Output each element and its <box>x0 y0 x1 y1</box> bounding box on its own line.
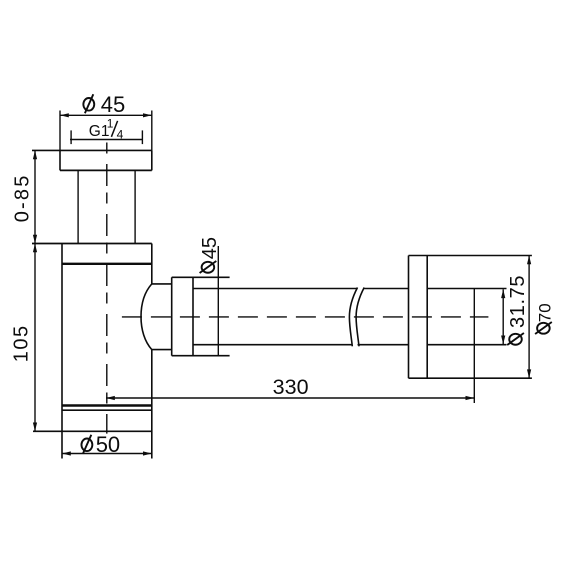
bottom cap line <box>33 430 152 432</box>
extension line Ø45 left <box>59 111 61 151</box>
compression nut <box>171 277 173 355</box>
body left side <box>61 244 63 459</box>
body bottom joint line <box>62 404 152 407</box>
thread label G1 1/4 <box>89 117 124 142</box>
dimension Ø45 nut <box>217 246 219 356</box>
dimension Ø70 <box>528 256 530 379</box>
riser pipe <box>77 170 79 243</box>
cap top line <box>62 409 152 411</box>
svg-text:45: 45 <box>199 237 221 259</box>
body flange <box>32 243 152 245</box>
dimension text Ø45 top <box>83 92 125 117</box>
svg-text:31.75: 31.75 <box>507 275 529 328</box>
dimension line Ø45 top <box>60 114 152 116</box>
body right side upper <box>151 244 153 284</box>
outlet pipe bottom <box>193 344 352 346</box>
svg-text:1: 1 <box>107 117 114 131</box>
svg-text:45: 45 <box>101 92 125 117</box>
top flange <box>32 149 152 151</box>
vertical centerline <box>106 143 108 434</box>
dimension 0-85 <box>34 150 36 431</box>
thread dimension line G1 1/4 <box>70 139 143 141</box>
pipe break symbol <box>349 288 357 347</box>
outlet pipe top <box>193 288 358 290</box>
body right side lower <box>151 350 153 459</box>
wall flange <box>409 255 532 257</box>
pipe end <box>473 289 475 404</box>
svg-text:70: 70 <box>536 303 555 322</box>
svg-text:105: 105 <box>10 324 32 362</box>
elbow <box>141 284 152 350</box>
dimension 105 <box>33 244 37 253</box>
horizontal centerline <box>122 316 489 318</box>
dimension Ø31.75 <box>502 289 504 344</box>
svg-text:330: 330 <box>273 375 309 399</box>
svg-text:0-85: 0-85 <box>11 173 33 222</box>
dimension Ø50 <box>81 432 120 457</box>
extension line Ø45 right <box>151 111 153 151</box>
